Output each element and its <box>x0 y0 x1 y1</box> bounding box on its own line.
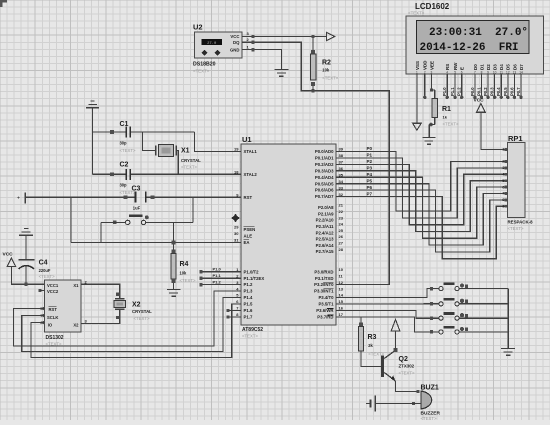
svg-text:12: 12 <box>506 70 510 74</box>
svg-text:RS: RS <box>445 64 450 70</box>
svg-text:P1.3: P1.3 <box>244 289 253 294</box>
svg-text:13: 13 <box>513 70 517 74</box>
svg-text:VCC: VCC <box>474 98 485 104</box>
svg-text:X1: X1 <box>73 283 79 288</box>
svg-text:22: 22 <box>339 209 344 214</box>
svg-text:<TEXT>: <TEXT> <box>242 334 258 339</box>
svg-text:2k: 2k <box>368 343 373 348</box>
svg-text:P5: P5 <box>367 178 373 183</box>
svg-text:P1.2: P1.2 <box>213 280 222 285</box>
svg-text:<TEXT>: <TEXT> <box>181 165 197 170</box>
svg-text:X2: X2 <box>132 302 141 309</box>
svg-text:C4: C4 <box>39 260 48 267</box>
svg-text:U2: U2 <box>193 23 203 32</box>
svg-text:P0.6/AD6: P0.6/AD6 <box>315 188 334 193</box>
svg-text:1k: 1k <box>443 115 448 120</box>
svg-text:P1.0: P1.0 <box>442 87 447 96</box>
svg-text:14: 14 <box>519 70 523 74</box>
svg-text:<TEXT>: <TEXT> <box>134 316 150 321</box>
svg-text:DS1302: DS1302 <box>46 335 64 341</box>
svg-text:P0.5: P0.5 <box>503 87 508 96</box>
svg-text:P0.2/AD2: P0.2/AD2 <box>315 162 334 167</box>
svg-text:<TEXT>: <TEXT> <box>120 148 136 153</box>
svg-text:P3.1/TXD: P3.1/TXD <box>315 276 334 281</box>
svg-text:29: 29 <box>234 225 239 230</box>
svg-text:<TEXT>: <TEXT> <box>322 76 338 81</box>
svg-text:P0.4/AD4: P0.4/AD4 <box>315 175 334 180</box>
svg-text:D1: D1 <box>479 64 484 70</box>
svg-text:P0.2: P0.2 <box>483 87 488 96</box>
svg-text:10: 10 <box>339 267 344 272</box>
svg-text:EA: EA <box>244 240 250 245</box>
svg-text:P1.6: P1.6 <box>244 308 253 313</box>
svg-text:P0.5/AD5: P0.5/AD5 <box>315 181 334 186</box>
svg-text:P1.7: P1.7 <box>244 315 253 320</box>
svg-text:<TEXT>: <TEXT> <box>508 226 524 231</box>
svg-text:30: 30 <box>234 231 239 236</box>
svg-text:D6: D6 <box>512 64 517 70</box>
svg-text:R1: R1 <box>442 106 451 113</box>
svg-text:C2: C2 <box>120 162 129 169</box>
svg-text:12: 12 <box>339 280 344 285</box>
svg-text:30p: 30p <box>120 141 128 146</box>
svg-text:3: 3 <box>431 70 433 74</box>
svg-text:VCC: VCC <box>3 252 14 258</box>
svg-text:15: 15 <box>339 299 344 304</box>
svg-text:5: 5 <box>454 70 456 74</box>
svg-text:D3: D3 <box>493 64 498 70</box>
svg-text:GND: GND <box>230 47 240 52</box>
svg-text:DQ: DQ <box>233 40 240 45</box>
svg-text:P2: P2 <box>367 159 373 164</box>
svg-text:10k: 10k <box>322 68 330 73</box>
svg-text:R2: R2 <box>322 60 331 67</box>
svg-text:P0.4: P0.4 <box>496 87 501 96</box>
svg-text:P2.6/A14: P2.6/A14 <box>316 243 335 248</box>
svg-text:R3: R3 <box>368 334 377 341</box>
svg-text:P6: P6 <box>367 185 373 190</box>
svg-text:P0.6: P0.6 <box>509 87 514 96</box>
svg-text:23: 23 <box>339 215 344 220</box>
svg-text:27.0: 27.0 <box>207 42 217 46</box>
svg-text:P4: P4 <box>367 172 373 177</box>
svg-text:6: 6 <box>461 70 463 74</box>
svg-text:17: 17 <box>339 312 344 317</box>
svg-text:BUZ1: BUZ1 <box>421 385 439 392</box>
svg-text:<TEXT>: <TEXT> <box>180 278 196 283</box>
svg-text:ZTX302: ZTX302 <box>399 364 415 369</box>
svg-text:D0: D0 <box>473 64 478 70</box>
svg-text:X1: X1 <box>181 148 190 155</box>
svg-text:ALE: ALE <box>244 234 253 239</box>
svg-text:P0.0: P0.0 <box>470 87 475 96</box>
svg-text:RW: RW <box>453 62 458 70</box>
svg-text:C3: C3 <box>132 186 141 193</box>
svg-text:P1.0: P1.0 <box>213 267 222 272</box>
svg-text:P0.7: P0.7 <box>516 87 521 96</box>
svg-text:24: 24 <box>339 222 344 227</box>
svg-text:P0.0/AD0: P0.0/AD0 <box>315 149 334 154</box>
svg-text:8: 8 <box>481 70 483 74</box>
svg-text:C1: C1 <box>120 121 129 128</box>
svg-text:P1.2: P1.2 <box>457 87 462 96</box>
svg-text:P2.2/A10: P2.2/A10 <box>316 218 335 223</box>
svg-text:D7: D7 <box>519 64 524 70</box>
svg-text:P1.1: P1.1 <box>450 87 455 96</box>
svg-text:D5: D5 <box>506 64 511 70</box>
svg-text:P2.7/A15: P2.7/A15 <box>316 249 335 254</box>
svg-text:VSS: VSS <box>415 61 420 70</box>
svg-text:<TEXT>: <TEXT> <box>421 416 437 420</box>
svg-text:CRYSTAL: CRYSTAL <box>132 309 152 314</box>
svg-text:X2: X2 <box>73 323 79 328</box>
svg-text:D4: D4 <box>499 64 504 70</box>
svg-text:+: + <box>17 196 20 202</box>
svg-text:P3.3/INT1: P3.3/INT1 <box>314 289 334 294</box>
svg-text:21: 21 <box>339 203 344 208</box>
svg-text:13: 13 <box>339 286 344 291</box>
svg-text:P7: P7 <box>367 191 373 196</box>
svg-text:P1.0/T2: P1.0/T2 <box>244 269 260 274</box>
svg-text:1: 1 <box>416 70 418 74</box>
svg-text:AT89C52: AT89C52 <box>242 327 263 333</box>
svg-text:<TEXT>: <TEXT> <box>443 122 459 127</box>
svg-text:P1.2: P1.2 <box>244 282 253 287</box>
svg-text:30p: 30p <box>120 183 128 188</box>
svg-text:26: 26 <box>339 234 344 239</box>
svg-text:PSEN: PSEN <box>244 227 256 232</box>
svg-text:28: 28 <box>339 247 344 252</box>
svg-text:D2: D2 <box>486 64 491 70</box>
svg-text:7: 7 <box>474 70 476 74</box>
svg-text:P1.1/T2EX: P1.1/T2EX <box>244 276 265 281</box>
svg-text:RST: RST <box>244 195 253 200</box>
svg-text:P2.0/A8: P2.0/A8 <box>318 205 334 210</box>
svg-text:P0.7/AD7: P0.7/AD7 <box>315 194 334 199</box>
svg-text:P3.4/T0: P3.4/T0 <box>318 295 334 300</box>
svg-text:4: 4 <box>446 70 448 74</box>
svg-text:25: 25 <box>339 228 344 233</box>
svg-text:P0: P0 <box>367 146 373 151</box>
svg-text:1uF: 1uF <box>133 206 141 211</box>
svg-text:CRYSTAL: CRYSTAL <box>181 158 201 163</box>
svg-text:2: 2 <box>424 70 426 74</box>
svg-text:RP1: RP1 <box>508 134 523 143</box>
svg-text:DS18B20: DS18B20 <box>193 62 216 68</box>
svg-text:P0.1: P0.1 <box>476 87 481 96</box>
svg-text:<TEXT>: <TEXT> <box>408 11 425 16</box>
svg-text:220uF: 220uF <box>39 268 51 273</box>
svg-text:R4: R4 <box>180 261 189 268</box>
svg-text:VCC: VCC <box>230 34 239 39</box>
svg-text:P1.1: P1.1 <box>213 273 222 278</box>
svg-text:P2.4/A12: P2.4/A12 <box>316 230 335 235</box>
svg-text:P3.5/T1: P3.5/T1 <box>318 302 334 307</box>
svg-text:VCC1: VCC1 <box>47 283 59 288</box>
svg-text:P3.2/INT0: P3.2/INT0 <box>314 282 334 287</box>
svg-text:RESPACK-8: RESPACK-8 <box>508 220 534 225</box>
svg-text:P1.4: P1.4 <box>244 295 253 300</box>
svg-text:23:00:31 27.0°: 23:00:31 27.0° <box>429 27 528 39</box>
svg-text:10k: 10k <box>180 271 188 276</box>
svg-text:<TEXT>: <TEXT> <box>399 371 415 376</box>
svg-text:P2.1/A9: P2.1/A9 <box>318 211 334 216</box>
svg-text:VEE: VEE <box>429 61 434 70</box>
svg-text:10: 10 <box>493 70 497 74</box>
svg-text:P1.5: P1.5 <box>244 302 253 307</box>
svg-text:XTAL1: XTAL1 <box>244 149 258 154</box>
svg-text:9: 9 <box>487 70 489 74</box>
svg-text:Q2: Q2 <box>399 356 408 363</box>
svg-text:U1: U1 <box>242 135 252 144</box>
svg-text:VCC2: VCC2 <box>47 289 59 294</box>
svg-text:P2.5/A13: P2.5/A13 <box>316 237 335 242</box>
svg-text:P0.3/AD3: P0.3/AD3 <box>315 168 334 173</box>
svg-text:P0.3: P0.3 <box>490 87 495 96</box>
svg-text:P0.1/AD1: P0.1/AD1 <box>315 156 334 161</box>
svg-text:11: 11 <box>500 70 504 74</box>
svg-text:P1: P1 <box>367 153 373 158</box>
svg-text:27: 27 <box>339 241 344 246</box>
svg-text:2014-12-26 FRI: 2014-12-26 FRI <box>420 42 519 54</box>
svg-text:SCLK: SCLK <box>47 315 58 320</box>
svg-text:P3.0/RXD: P3.0/RXD <box>314 269 333 274</box>
svg-text:RST: RST <box>49 307 58 312</box>
svg-text:<TEXT>: <TEXT> <box>39 274 55 279</box>
svg-text:<TEXT>: <TEXT> <box>193 69 210 74</box>
svg-text:VDD: VDD <box>423 60 428 70</box>
svg-text:XTAL2: XTAL2 <box>244 172 258 177</box>
svg-text:IO: IO <box>48 323 53 328</box>
svg-text:P3: P3 <box>367 166 373 171</box>
svg-text:P2.3/A11: P2.3/A11 <box>316 224 334 229</box>
